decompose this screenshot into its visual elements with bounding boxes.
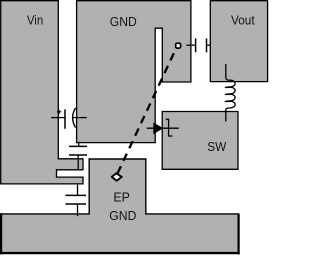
wire into SW pin <box>147 127 179 129</box>
C4 right plate <box>206 38 208 52</box>
region EP GND (exposed pad + bottom ground bar) <box>1 159 239 253</box>
wire C4 right lead <box>207 44 211 46</box>
C1 straight plate <box>64 109 66 128</box>
node marker at GND/Vout cap (rounded square via) <box>176 43 181 48</box>
C4 left plate <box>195 38 197 52</box>
capacitor C4 (output cap, horizontal) <box>186 38 210 52</box>
arrowhead pointing at SW pin <box>153 123 163 135</box>
region GND (top copper pour with slot) <box>77 1 191 143</box>
region Vin (copper pour) <box>1 1 83 184</box>
svg-text:SW: SW <box>207 140 226 154</box>
region SW (copper pour) <box>162 112 238 170</box>
node marker at EP (diamond via) <box>112 173 122 181</box>
wire C3 top lead <box>77 183 79 195</box>
wire L1 bottom lead <box>225 110 227 122</box>
svg-text:Vout: Vout <box>231 13 255 27</box>
SW pin symbol <box>166 119 173 136</box>
svg-text:EP: EP <box>113 191 129 205</box>
capacitor C3 (vertical) <box>65 183 86 216</box>
C2 top plate <box>69 145 87 147</box>
C1 plus sign <box>57 111 61 113</box>
heavy right border of ground bar <box>238 214 240 254</box>
C2 bottom plate <box>69 154 87 156</box>
dashed return-path line from EP via to output cap via <box>118 53 174 173</box>
C3 top plate <box>65 194 86 196</box>
heavy left border of ground bar <box>0 213 2 254</box>
svg-text:GND: GND <box>109 209 136 223</box>
svg-text:GND: GND <box>110 15 137 29</box>
wire C2 top lead <box>78 142 80 147</box>
svg-text:Vin: Vin <box>27 13 43 27</box>
capacitor C1 (input cap, polarized, horizontal) <box>51 108 87 129</box>
capacitor C2 (vertical) <box>69 142 87 170</box>
wire C1 left lead <box>51 117 65 119</box>
C3 bottom plate <box>65 203 86 205</box>
wire C4 left lead <box>186 44 195 46</box>
inductor L1 (coil between Vout and SW) <box>225 64 235 122</box>
heavy bottom border of ground bar <box>0 252 240 254</box>
C1 curved plate <box>73 108 76 128</box>
L1 coil loops <box>225 80 235 110</box>
region Vout (copper pour) <box>210 1 267 82</box>
wire L1 top lead <box>226 64 230 80</box>
wire C3 bottom lead <box>77 204 79 216</box>
wire C1 right lead <box>73 117 87 119</box>
wire C2 bottom lead <box>77 155 79 169</box>
